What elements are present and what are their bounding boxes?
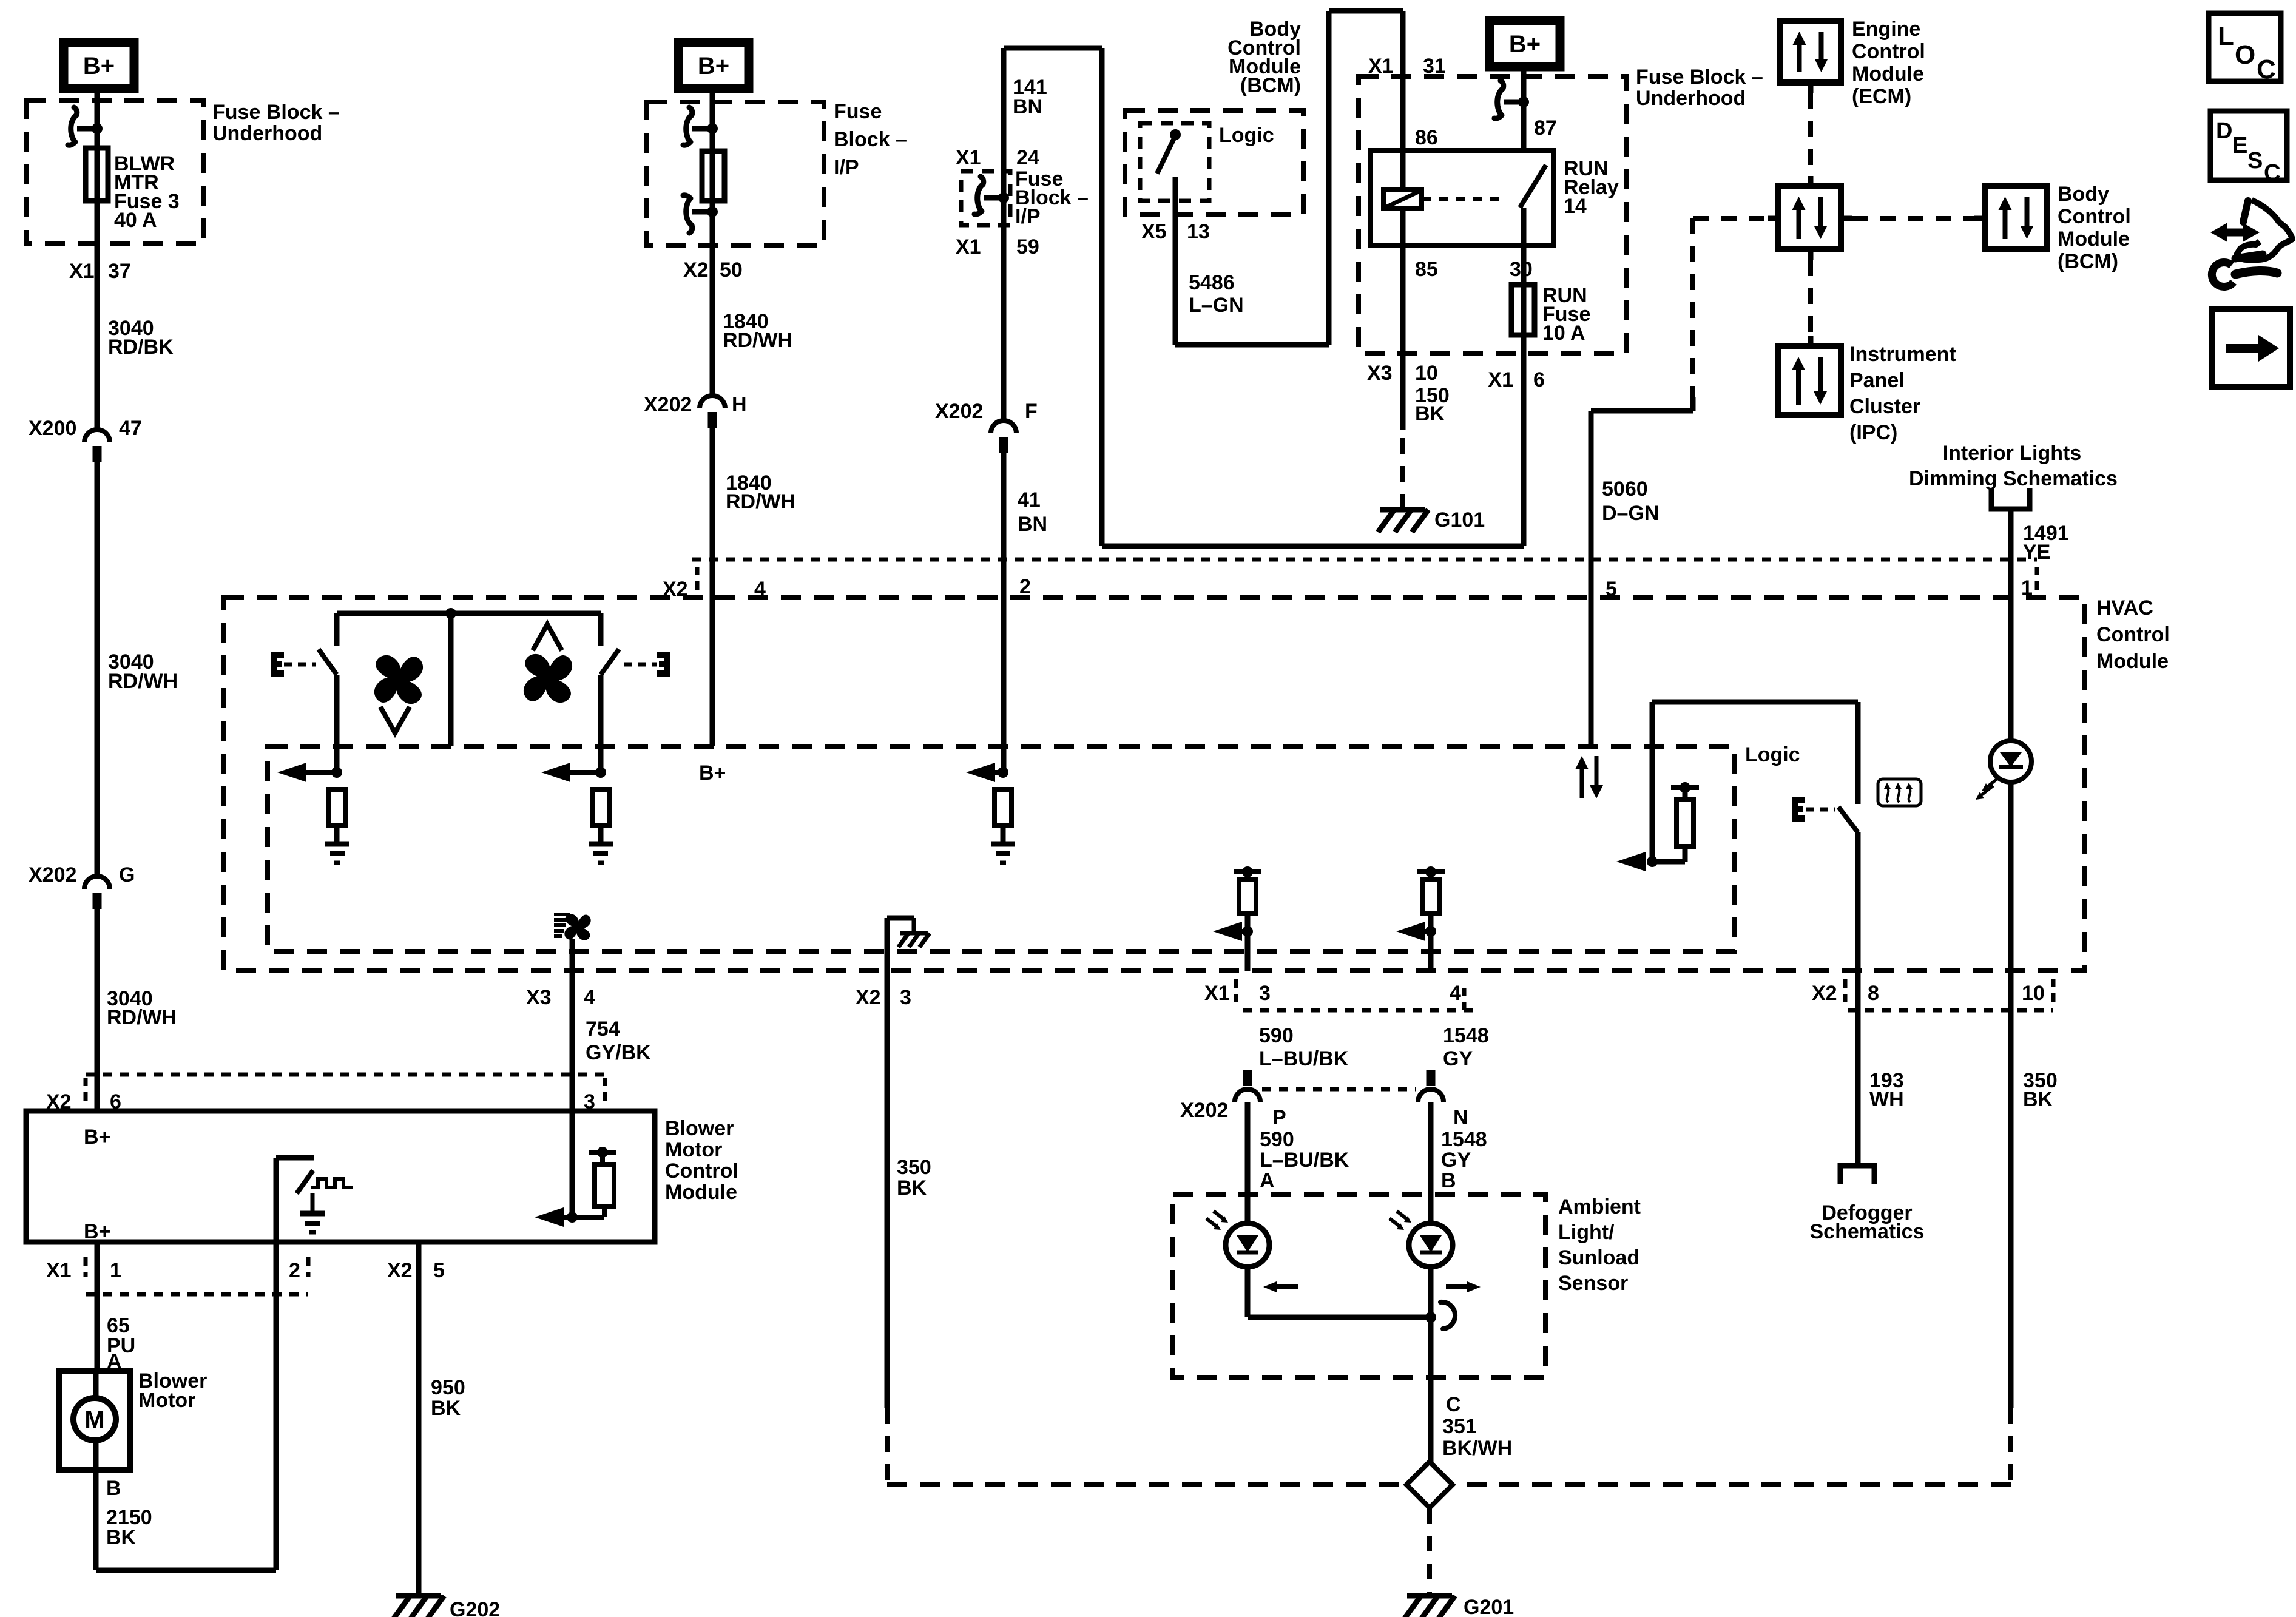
svg-text:G: G <box>119 863 135 886</box>
svg-text:Instrument: Instrument <box>1849 343 1956 366</box>
svg-text:10: 10 <box>1415 362 1438 385</box>
svg-text:1548: 1548 <box>1443 1024 1489 1047</box>
svg-text:P: P <box>1272 1106 1286 1129</box>
svg-text:6: 6 <box>1533 368 1545 391</box>
svg-text:Cluster: Cluster <box>1849 395 1920 418</box>
svg-text:Control: Control <box>665 1160 738 1183</box>
svg-text:S: S <box>2247 148 2263 174</box>
svg-text:50: 50 <box>720 258 743 282</box>
svg-text:C: C <box>2264 160 2280 186</box>
svg-text:X3: X3 <box>1367 362 1393 385</box>
svg-text:1548: 1548 <box>1441 1128 1487 1151</box>
svg-text:24: 24 <box>1016 146 1039 169</box>
svg-text:Motor: Motor <box>138 1389 195 1412</box>
svg-text:X1: X1 <box>46 1259 72 1282</box>
svg-text:Module: Module <box>2096 650 2169 673</box>
svg-text:Light/: Light/ <box>1558 1221 1615 1244</box>
svg-text:Control: Control <box>1852 40 1925 63</box>
svg-text:2: 2 <box>289 1259 300 1282</box>
svg-text:Ambient: Ambient <box>1558 1195 1641 1218</box>
svg-text:BN: BN <box>1013 95 1042 118</box>
svg-text:Fuse Block –: Fuse Block – <box>212 101 340 124</box>
svg-text:(IPC): (IPC) <box>1849 421 1897 444</box>
svg-text:X2: X2 <box>387 1259 413 1282</box>
svg-text:590: 590 <box>1260 1128 1294 1151</box>
svg-text:754: 754 <box>586 1018 620 1041</box>
svg-text:BK/WH: BK/WH <box>1442 1437 1512 1460</box>
svg-text:Module: Module <box>2058 228 2130 251</box>
svg-text:590: 590 <box>1259 1024 1294 1047</box>
svg-text:B+: B+ <box>84 1126 110 1149</box>
svg-text:1: 1 <box>110 1259 121 1282</box>
svg-text:Sunload: Sunload <box>1558 1246 1639 1269</box>
svg-text:L: L <box>2218 21 2234 51</box>
svg-text:B+: B+ <box>1509 31 1541 58</box>
svg-text:Body: Body <box>2058 183 2109 206</box>
svg-text:Module: Module <box>1852 62 1924 86</box>
svg-text:X202: X202 <box>644 393 692 416</box>
svg-text:Panel: Panel <box>1849 369 1905 392</box>
svg-text:B: B <box>106 1477 121 1500</box>
svg-text:C: C <box>2257 55 2276 84</box>
svg-text:BK: BK <box>106 1526 137 1549</box>
svg-text:RD/WH: RD/WH <box>107 1006 177 1029</box>
svg-text:47: 47 <box>119 417 142 440</box>
svg-text:85: 85 <box>1415 258 1438 281</box>
svg-text:(BCM): (BCM) <box>1240 74 1301 97</box>
svg-text:X2: X2 <box>683 258 709 282</box>
svg-text:Sensor: Sensor <box>1558 1272 1628 1295</box>
svg-text:RD/BK: RD/BK <box>108 336 174 359</box>
svg-text:5: 5 <box>433 1259 445 1282</box>
svg-text:5060: 5060 <box>1602 478 1648 501</box>
svg-text:GY: GY <box>1441 1149 1471 1172</box>
svg-text:RD/WH: RD/WH <box>108 670 178 693</box>
svg-text:F: F <box>1025 400 1038 423</box>
svg-text:X202: X202 <box>29 863 76 886</box>
svg-text:G101: G101 <box>1434 508 1485 532</box>
svg-text:X1: X1 <box>1204 982 1230 1005</box>
svg-text:Block –: Block – <box>834 128 907 151</box>
svg-text:86: 86 <box>1415 126 1438 149</box>
svg-text:59: 59 <box>1016 235 1039 258</box>
svg-text:Fuse: Fuse <box>834 100 882 123</box>
svg-text:(ECM): (ECM) <box>1852 85 1911 108</box>
svg-text:Logic: Logic <box>1745 743 1800 766</box>
svg-text:RD/WH: RD/WH <box>726 490 795 513</box>
svg-text:HVAC: HVAC <box>2096 596 2153 619</box>
svg-text:350: 350 <box>897 1156 931 1179</box>
svg-text:B+: B+ <box>84 1220 110 1243</box>
svg-text:BK: BK <box>431 1397 461 1420</box>
svg-text:L–BU/BK: L–BU/BK <box>1259 1047 1349 1070</box>
svg-text:G202: G202 <box>450 1598 500 1617</box>
svg-text:Logic: Logic <box>1219 124 1274 147</box>
svg-text:Module: Module <box>665 1181 737 1204</box>
svg-text:2: 2 <box>1019 575 1031 598</box>
svg-text:GY/BK: GY/BK <box>586 1041 651 1064</box>
svg-text:I/P: I/P <box>834 156 859 179</box>
svg-text:B+: B+ <box>698 53 729 79</box>
svg-text:Schematics: Schematics <box>1810 1220 1925 1243</box>
svg-text:O: O <box>2235 40 2255 70</box>
svg-text:BN: BN <box>1018 513 1047 536</box>
svg-text:D: D <box>2216 118 2232 144</box>
svg-text:10 A: 10 A <box>1542 322 1585 345</box>
svg-text:E: E <box>2232 133 2247 158</box>
svg-text:X1: X1 <box>69 260 95 283</box>
svg-text:X1: X1 <box>1488 368 1513 391</box>
svg-text:3: 3 <box>900 986 911 1009</box>
svg-text:C: C <box>1446 1393 1461 1416</box>
svg-text:B+: B+ <box>83 53 115 79</box>
svg-text:351: 351 <box>1442 1415 1477 1438</box>
svg-text:X1: X1 <box>956 235 981 258</box>
svg-text:D–GN: D–GN <box>1602 502 1659 525</box>
svg-text:X2: X2 <box>1812 982 1837 1005</box>
svg-text:Control: Control <box>2058 205 2131 228</box>
svg-text:14: 14 <box>1564 195 1587 218</box>
svg-text:H: H <box>732 393 747 416</box>
svg-text:X3: X3 <box>526 986 552 1009</box>
svg-text:BK: BK <box>2023 1088 2053 1111</box>
svg-text:Motor: Motor <box>665 1138 722 1161</box>
svg-text:X200: X200 <box>29 417 76 440</box>
svg-text:(BCM): (BCM) <box>2058 250 2118 273</box>
svg-text:37: 37 <box>108 260 131 283</box>
svg-text:L–BU/BK: L–BU/BK <box>1260 1149 1349 1172</box>
svg-text:Dimming Schematics: Dimming Schematics <box>1909 467 2118 490</box>
svg-text:Underhood: Underhood <box>1636 87 1746 110</box>
svg-text:X2: X2 <box>856 986 881 1009</box>
svg-text:N: N <box>1453 1106 1468 1129</box>
svg-text:4: 4 <box>584 986 595 1009</box>
svg-text:BK: BK <box>1415 402 1445 425</box>
svg-text:3: 3 <box>1259 982 1271 1005</box>
svg-text:10: 10 <box>2022 982 2045 1005</box>
svg-text:X1: X1 <box>956 146 981 169</box>
svg-text:A: A <box>1260 1169 1275 1192</box>
svg-text:41: 41 <box>1018 488 1041 511</box>
svg-text:X5: X5 <box>1141 220 1167 243</box>
svg-text:X202: X202 <box>935 400 983 423</box>
svg-text:Underhood: Underhood <box>212 122 322 145</box>
svg-text:G201: G201 <box>1464 1596 1514 1617</box>
svg-text:RD/WH: RD/WH <box>723 329 792 352</box>
svg-text:WH: WH <box>1869 1088 1904 1111</box>
svg-text:L–GN: L–GN <box>1189 294 1244 317</box>
svg-text:X202: X202 <box>1180 1099 1228 1122</box>
svg-text:BK: BK <box>897 1176 927 1200</box>
svg-text:Blower: Blower <box>665 1117 734 1140</box>
svg-text:B: B <box>1441 1169 1456 1192</box>
svg-text:B+: B+ <box>699 761 726 785</box>
svg-text:13: 13 <box>1187 220 1210 243</box>
svg-text:5486: 5486 <box>1189 271 1235 294</box>
svg-text:4: 4 <box>1450 982 1461 1005</box>
svg-text:87: 87 <box>1534 116 1557 140</box>
svg-text:Interior Lights: Interior Lights <box>1943 442 2082 465</box>
svg-text:M: M <box>84 1406 104 1433</box>
svg-text:40 A: 40 A <box>114 209 157 232</box>
svg-text:GY: GY <box>1443 1047 1473 1070</box>
svg-text:Engine: Engine <box>1852 18 1920 41</box>
svg-text:I/P: I/P <box>1015 205 1041 228</box>
svg-text:8: 8 <box>1868 982 1879 1005</box>
svg-text:Control: Control <box>2096 623 2170 646</box>
svg-text:950: 950 <box>431 1376 465 1399</box>
svg-text:Fuse Block –: Fuse Block – <box>1636 66 1763 89</box>
